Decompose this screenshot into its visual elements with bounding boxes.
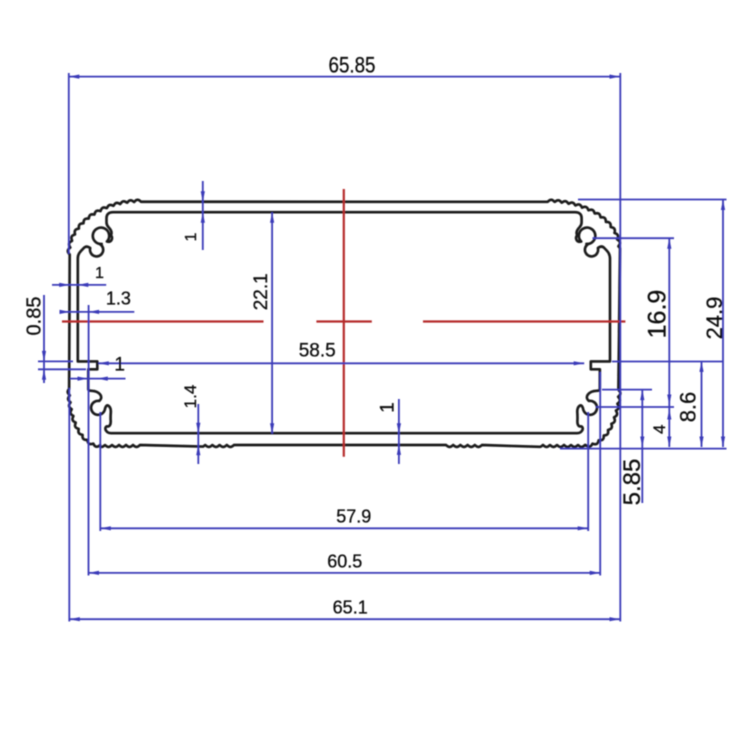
svg-text:1.4: 1.4 bbox=[181, 385, 200, 409]
svg-text:65.1: 65.1 bbox=[333, 598, 368, 618]
vertical centerline bbox=[343, 189, 345, 457]
dimension 8.6 groove to bottom height bbox=[612, 361, 723, 447]
svg-text:16.9: 16.9 bbox=[644, 290, 672, 339]
horizontal centerline left segment bbox=[62, 320, 264, 322]
bottom extension line (right side dims) bbox=[560, 448, 727, 450]
svg-text:24.9: 24.9 bbox=[702, 297, 727, 340]
dimension 57.9 bottom boss span bbox=[100, 412, 588, 531]
dimension 1 bottom wall thickness bbox=[377, 399, 401, 464]
dimension 60.5 groove span bbox=[89, 372, 601, 576]
dimension 1.4 bottom wall thickness bbox=[181, 385, 200, 464]
svg-text:4: 4 bbox=[650, 424, 669, 433]
dimension 65.85 top overall width bbox=[69, 53, 621, 622]
dimension 16.9 boss mouth to groove height bbox=[593, 238, 675, 407]
svg-text:8.6: 8.6 bbox=[676, 392, 701, 423]
svg-text:1: 1 bbox=[377, 402, 398, 413]
dimension 65.1 bottom overall width bbox=[69, 388, 620, 622]
horizontal centerline right segment bbox=[423, 320, 625, 322]
dimension 1.3 wall to groove bbox=[60, 289, 135, 373]
horizontal centerline middle segment bbox=[316, 320, 371, 322]
dimension 0.85 groove step height bbox=[24, 295, 87, 383]
svg-text:1: 1 bbox=[95, 265, 104, 282]
dimension 4 bottom boss mouth height bbox=[596, 407, 674, 447]
aluminium extrusion profile outer outline (knurled corners) bbox=[68, 200, 621, 447]
svg-text:1: 1 bbox=[183, 232, 200, 241]
svg-text:1: 1 bbox=[114, 354, 125, 375]
dimension 58.5 groove-to-groove width bbox=[98, 341, 584, 366]
dimension 1 left wall thickness bbox=[52, 265, 106, 287]
svg-text:57.9: 57.9 bbox=[336, 506, 371, 526]
svg-text:5.85: 5.85 bbox=[619, 459, 646, 506]
svg-text:1.3: 1.3 bbox=[106, 289, 131, 309]
dimension 1 groove notch width bbox=[70, 354, 126, 380]
svg-text:65.85: 65.85 bbox=[329, 53, 376, 78]
svg-text:60.5: 60.5 bbox=[327, 551, 362, 571]
dimension 22.1 inner height bbox=[251, 212, 274, 434]
svg-text:58.5: 58.5 bbox=[299, 341, 336, 362]
svg-text:22.1: 22.1 bbox=[251, 273, 272, 310]
dimension 1 top wall thickness bbox=[183, 181, 205, 250]
svg-text:0.85: 0.85 bbox=[24, 297, 46, 336]
dimension 5.85 bottom boss top to bottom bbox=[602, 390, 652, 506]
dimension 24.9 overall height bbox=[578, 200, 727, 448]
aluminium extrusion profile inner outline (screw bosses + side grooves) bbox=[78, 212, 610, 433]
